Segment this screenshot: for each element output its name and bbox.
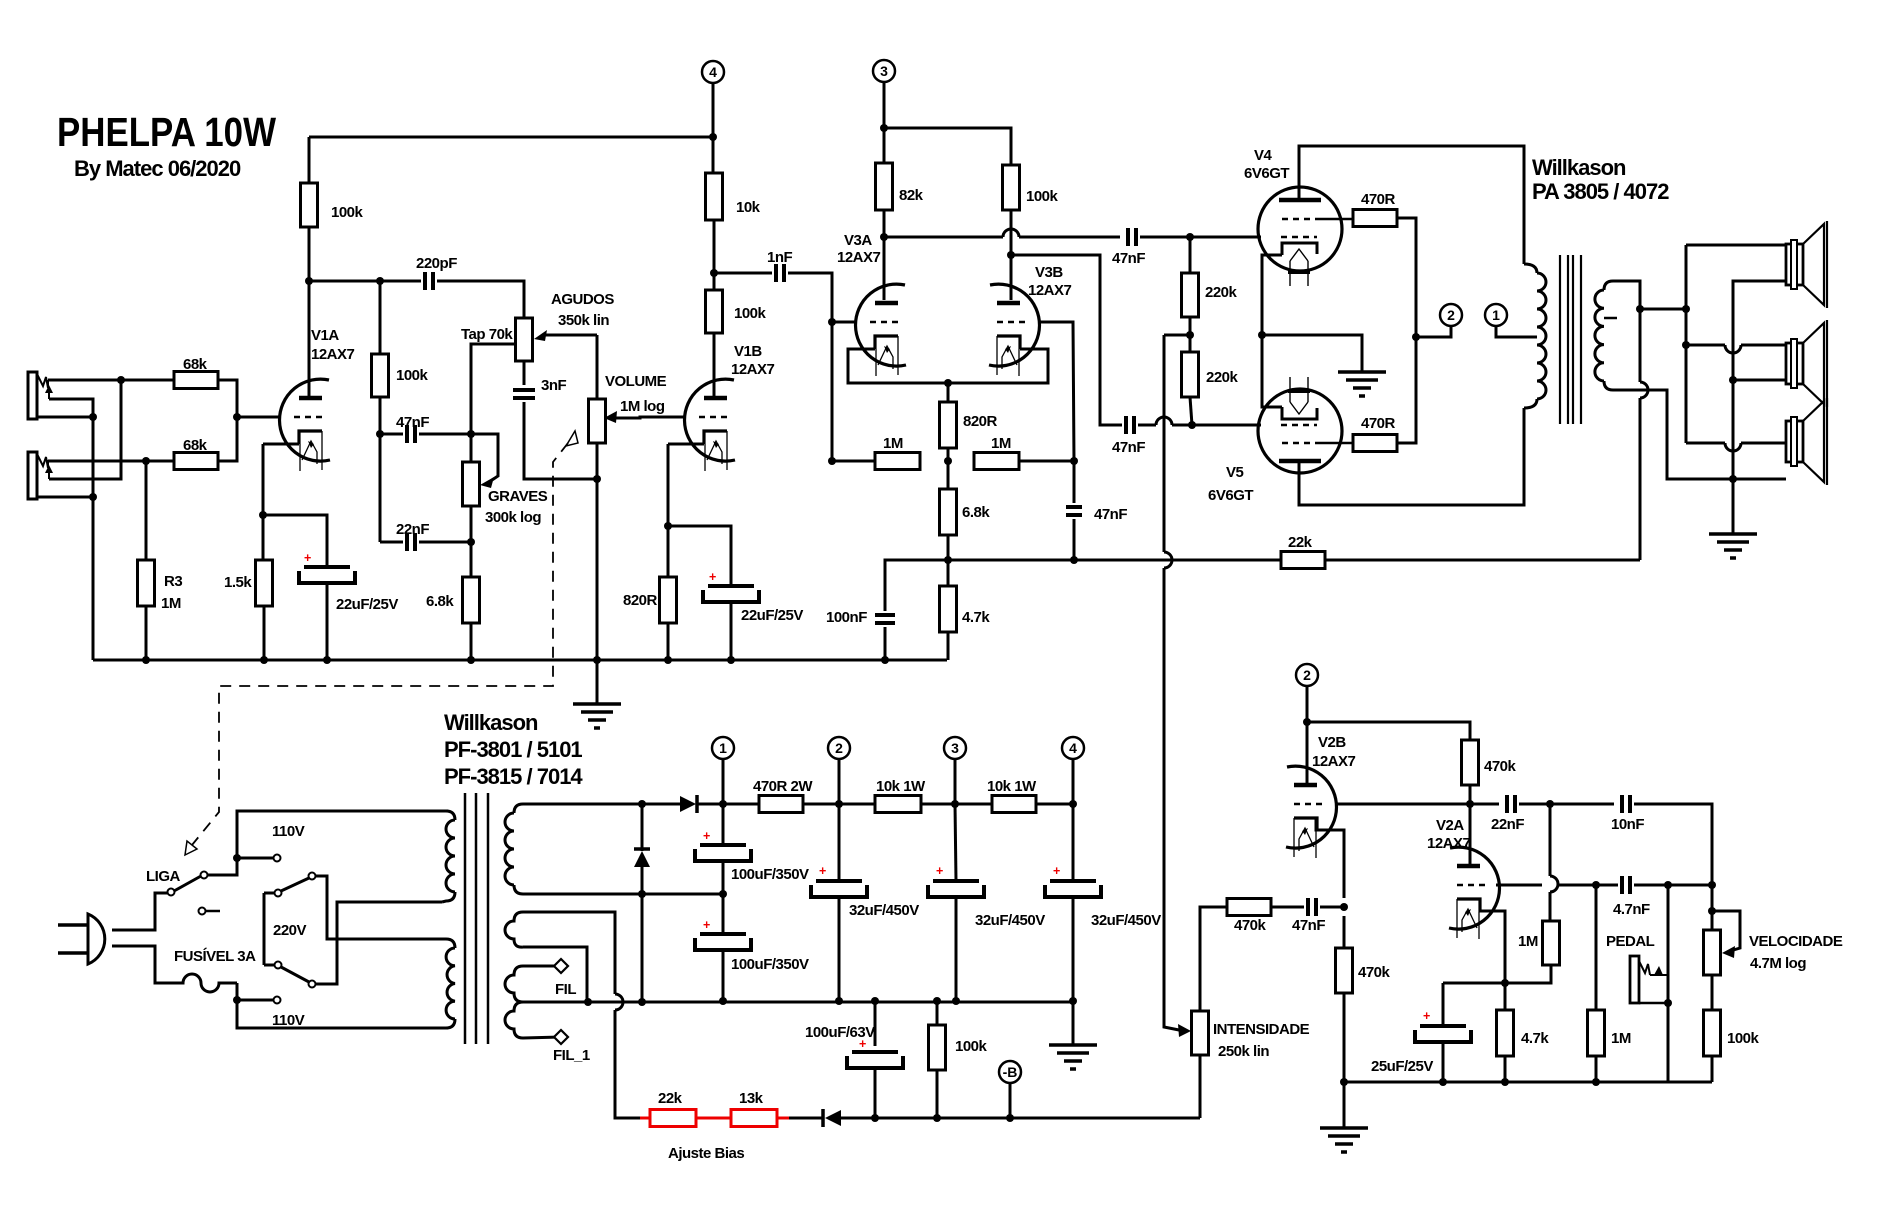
svg-text:V1A: V1A [311,327,339,344]
transformer PT primary upper jog top [446,811,455,820]
wire V2A cathode exit [1480,898,1505,1010]
node 470R column [1412,333,1420,341]
wire V2A plate stem [1469,804,1472,866]
wire hop 1M over grid at 1550,884 [1550,876,1558,892]
wire 4.7nF right [1634,884,1712,887]
wire speaker feed right [1640,308,1686,311]
node 22nF out [1546,800,1554,808]
node 22uF2 bus [727,656,735,664]
wire 32uF1 to bus [838,897,841,1001]
wire tremolo vertical lower [1164,568,1184,1031]
svg-text:12AX7: 12AX7 [1028,282,1072,299]
node velocidade loop [1708,907,1716,915]
node -B [1006,1114,1014,1122]
wire to V4 grid [1190,236,1261,239]
node 6.8k bus [467,656,475,664]
wire speaker2 bottom [1733,379,1786,382]
svg-text:INTENSIDADE: INTENSIDADE [1213,1021,1310,1038]
selector contact D [309,981,316,988]
svg-text:4.7k: 4.7k [962,609,990,626]
dashed linkage arrowhead top [566,431,578,446]
node cap2 bus [719,997,727,1005]
selector contact C [275,962,282,969]
wire 22nF to 10nF node [1519,803,1614,806]
resistor 100k bleeder [929,1025,946,1070]
contact 110V top [274,855,281,862]
resistor 100k velocidade [1704,1010,1721,1056]
wire V3B plate stem [1010,255,1013,300]
wire V1B cathode down [667,444,670,526]
wire 220k bottom lead [1190,397,1192,425]
capacitor 47nF coupling A [1112,228,1145,267]
node 100nF bus [881,656,889,664]
capacitor 3nF [513,377,567,398]
svg-text:4.7M log: 4.7M log [1750,955,1806,972]
wire t1 stem [722,759,725,804]
node R3 bus [142,656,150,664]
terminal -B [999,1061,1021,1083]
node speaker bus mid [1682,341,1690,349]
wire hop speaker2 top at 1733,345 [1725,345,1741,353]
wire 220pF node down [379,281,382,354]
wire hop speaker3 top at 1733,443 [1725,443,1741,451]
wire V3A plate stem [883,237,886,300]
svg-text:VELOCIDADE: VELOCIDADE [1749,933,1843,950]
wire velocidade stem [1711,885,1714,930]
terminal 2 V2B [1296,664,1318,686]
wire to V5 grid [1192,424,1261,427]
svg-text:10k 1W: 10k 1W [876,778,926,795]
wire NFB bus left [885,560,948,611]
node cathodes [1258,331,1266,339]
resistor 470R upper [1353,191,1397,227]
wire 100k tone to 47nF node [379,397,382,542]
capacitor 32uF/450V 2 [928,864,1045,929]
svg-text:4.7k: 4.7k [1521,1030,1549,1047]
wire 32uF3 stem [1072,804,1075,881]
wire rail3 to 82k [883,128,886,163]
terminal 2 bottom [828,737,850,759]
node tap 47nF [467,430,475,438]
wire terminal1 stem [1496,326,1537,337]
node V3A grid tap [828,318,836,326]
node V3 common cathode [944,379,952,387]
wire cathode net down [1343,916,1346,948]
wire selector B to lower winding [316,876,442,939]
wire pedal drop [1667,885,1670,1082]
node speaker bus top [1682,305,1690,313]
wire bias 22k-13k red link [696,1117,731,1120]
node HV top D1 [638,800,646,808]
resistor 68k lower [174,437,218,470]
wire bus ground stem [596,660,599,704]
wire R3 to ground bus [145,606,148,660]
transformer OT primary coil [1537,273,1546,399]
svg-text:-B: -B [1003,1064,1018,1080]
svg-text:V4: V4 [1254,147,1273,164]
capacitor 1nF [767,249,793,282]
svg-text:AGUDOS: AGUDOS [551,291,614,308]
contact 110V bottom [274,997,281,1004]
node CT D2 [638,998,646,1006]
wire 22nF right lead [419,541,471,544]
transformer OT core [1560,255,1581,424]
node J1 tip junction [117,376,125,384]
terminal 1 bottom [712,737,734,759]
wire 68k upper to grid [218,380,281,417]
transformer PT HV coil [505,813,514,885]
potentiometer AGUDOS 350k [516,318,533,361]
svg-text:1M: 1M [883,435,903,452]
wire 47nF a to 220k node [1140,236,1190,239]
capacitor 47nF NFB [1066,506,1127,523]
input jack J2 [28,452,53,499]
wire sleeve ground drop [92,417,95,660]
wire 82k to plate node [883,210,886,237]
wire INTENSIDADE top [1200,907,1227,1011]
svg-text:6.8k: 6.8k [426,593,454,610]
resistor 10k [706,173,761,220]
wire 1M hop upper [1549,804,1552,876]
node 32uF3 bus [1069,997,1077,1005]
wire 1M right lead [1019,460,1074,463]
svg-text:1nF: 1nF [767,249,793,266]
wire cap1 mid [722,861,725,934]
wire B1 to B2 [803,803,875,806]
wire 68k lower to grid node [218,417,237,461]
node 25uF rail [1439,1078,1447,1086]
wire 110V top tap [237,857,273,860]
wire AGUDOS bottom to 3nF [523,361,526,385]
wire 22uF to bus [326,583,329,660]
wire B2 to B3 [921,803,992,806]
wire 3nF down and right [524,402,597,479]
svg-text:13k: 13k [739,1090,764,1107]
ground V2 [1320,1128,1368,1152]
wire t3 stem [954,759,957,804]
switch LIGA contact left [168,889,175,896]
fuse FUSIVEL 3A [180,974,237,992]
wire V2B grid line [1336,803,1499,806]
node V2A plate node [1466,800,1474,808]
wire 47nF right lead [419,433,471,436]
svg-text:V1B: V1B [734,343,762,360]
transformer PT HV jog top [514,804,523,813]
wire plug line lower [112,946,180,983]
svg-text:470k: 470k [1234,917,1267,934]
svg-text:1.5k: 1.5k [224,574,252,591]
resistor 100k V1A plate [301,183,364,227]
wire bias winding bottom [523,947,587,1002]
svg-text:12AX7: 12AX7 [1312,753,1356,770]
node 22uF bus [323,656,331,664]
capacitor 4.7nF [1613,876,1650,918]
svg-text:+: + [1053,864,1060,878]
svg-text:V3A: V3A [844,232,872,249]
wire 100k to bias line [936,1070,939,1118]
node V3A plate [880,233,888,241]
wire NFB bus mid [948,559,1281,562]
transformer PT bias winding [505,912,523,947]
capacitor 10nF [1611,795,1644,833]
svg-text:PF-3815 / 7014: PF-3815 / 7014 [444,764,583,789]
node velocidade net [1708,881,1716,889]
node rail terminal4 [709,133,717,141]
svg-text:2: 2 [1447,307,1455,323]
transformer OT primary jog bottom [1524,399,1537,408]
node B+ 3 [951,800,959,808]
potentiometer VOLUME 1M [589,399,606,443]
tube V1A [280,379,330,471]
selector blade upper [281,878,309,891]
svg-text:6V6GT: 6V6GT [1208,487,1253,504]
node J1 sleeve junction [89,413,97,421]
wire hop bias over CT at 615,1002 [615,994,623,1010]
svg-text:100k: 100k [1727,1030,1760,1047]
capacitor 100uF/350V lower [695,918,809,973]
resistor 1M V2A grid [1588,1010,1605,1056]
capacitor 22nF tone [396,521,429,551]
svg-text:Willkason: Willkason [444,710,538,735]
svg-text:820R: 820R [963,413,998,430]
wire hop to 47nF a [1019,236,1120,239]
resistor 22k bias [650,1110,696,1127]
node V1A plate [305,277,313,285]
svg-text:25uF/25V: 25uF/25V [1371,1058,1433,1075]
resistor 470R lower [1353,415,1397,452]
svg-text:+: + [819,864,826,878]
wire HV top [523,803,638,806]
wire V2B cathode exit [1316,818,1344,898]
terminal 3 bottom [944,737,966,759]
resistor 10k 1W b [987,778,1037,813]
svg-text:12AX7: 12AX7 [837,249,881,266]
node HV bottom [638,890,646,898]
svg-text:32uF/450V: 32uF/450V [975,912,1045,929]
wire speaker bus [1685,245,1688,443]
tube V5 6V6GT [1258,335,1353,473]
resistor 820R V1B [660,577,677,623]
node 1M right [1070,457,1078,465]
node 1M left [828,457,836,465]
wire terminal3 stem [883,82,886,128]
dashed linkage line [192,443,568,845]
wire 10nF right [1634,804,1712,884]
wire V1A cathode down [262,444,265,560]
node 4.7k rail [1501,1078,1509,1086]
node volume bottom [593,475,601,483]
node speaker3 return [1729,475,1737,483]
terminal 2 output [1440,304,1462,326]
svg-text:6.8k: 6.8k [962,504,990,521]
wire 470R lower to column [1397,337,1416,443]
svg-text:R3: R3 [164,573,182,590]
node 220k mid [1186,331,1194,339]
node 47nF left [376,430,384,438]
wire 100uF63 stem [874,1001,877,1046]
node J2 sleeve junction [89,493,97,501]
resistor 100k tone [372,354,389,397]
wire terminal2 stem [1416,326,1451,337]
terminal 4 top [702,61,724,83]
node 110V top tap [233,854,241,862]
wire 820R2 to 1M node [947,448,950,489]
terminal 4 bottom [1062,737,1084,759]
contact FIL_1 [554,1030,568,1044]
wire 6.8k to NFB bus [947,535,950,560]
potentiometer VELOCIDADE 4.7M [1704,930,1721,975]
svg-text:12AX7: 12AX7 [731,361,775,378]
wire rail to 100k [308,137,311,183]
wire plate line to hop [884,236,1003,239]
svg-text:350k lin: 350k lin [558,312,609,329]
node B+ 4 [1069,800,1077,808]
node 820R bus [664,656,672,664]
wire 220k middle [1189,317,1192,352]
transformer PT primary lower jog bottom [446,1019,455,1028]
wire t4b stem [1072,759,1075,804]
wire 6.8k to bus [470,623,473,660]
svg-text:VOLUME: VOLUME [605,373,667,390]
svg-text:By Matec 06/2020: By Matec 06/2020 [74,156,241,181]
resistor 10k 1W a [875,778,926,813]
svg-text:110V: 110V [272,823,305,840]
transformer PT primary lower jog top [442,939,455,948]
svg-text:820R: 820R [623,592,658,609]
wire speaker1 top [1686,244,1786,247]
wire J2 switch to J1 tip [49,380,121,479]
capacitor 47nF tremolo [1292,898,1325,934]
wire V3A grid [832,321,857,324]
svg-text:3nF: 3nF [541,377,567,394]
resistor 6.8k V3 [940,489,957,535]
transformer PT primary upper jog bottom [442,892,455,902]
resistor 4.7k V3 [940,586,957,632]
svg-text:100uF/63V: 100uF/63V [805,1024,875,1041]
node pedal sleeve [1664,999,1672,1007]
wire 47nF trem to cathode node [1320,906,1344,909]
capacitor 32uF/450V 1 [811,864,919,919]
node B+ 2 [835,800,843,808]
svg-text:1: 1 [719,740,727,756]
transformer OT secondary centre tap stub [1604,317,1617,320]
svg-text:47nF: 47nF [1292,917,1325,934]
node V2 rail left [1340,1078,1348,1086]
arrow INTENSIDADE wiper [1178,1024,1191,1037]
wire 47nF drop [1073,461,1076,503]
wire 47nF b to grid node a [1138,424,1156,427]
wire 100k to V1B bar [713,333,716,398]
wire VOLUME wiper to V1B grid [612,417,686,418]
wire 470k to grid line [1469,785,1472,804]
wire speaker3 bottom [1733,478,1786,481]
resistor 470k V2B cathode [1336,948,1353,993]
ground speakers [1709,534,1757,558]
selector 220V left link [263,893,266,965]
transformer OT primary jog top [1524,264,1537,273]
wire LIGA to 110V column [208,811,448,875]
svg-text:+: + [936,864,943,878]
wire t2 stem [838,759,841,804]
tube V1B [685,379,735,471]
resistor 820R V3 [940,402,957,448]
svg-text:470R: 470R [1361,191,1396,208]
resistor 1M left [875,435,920,470]
wire V1B plate to 1nF [714,272,772,275]
wire tremolo vertical upper [1163,335,1166,552]
arrow VELOCIDADE wiper [1722,946,1735,958]
svg-text:100nF: 100nF [826,609,867,626]
wire plate node to 100k [713,273,716,290]
transformer PT FIL winding upper [505,966,561,1002]
node bias CT [584,998,592,1006]
svg-text:1: 1 [1492,307,1500,323]
svg-text:12AX7: 12AX7 [311,346,355,363]
wire 32uF2 stem [955,804,956,881]
svg-text:68k: 68k [183,356,208,373]
svg-text:32uF/450V: 32uF/450V [849,902,919,919]
node 32uF1 bus [835,997,843,1005]
wire 1M grid leak stem [1595,885,1598,1010]
arrow AGUDOS wiper [534,330,547,341]
wire V3B out right [1011,255,1122,425]
resistor 68k upper [174,356,218,389]
svg-text:10k 1W: 10k 1W [987,778,1037,795]
resistor 1M right [974,435,1019,470]
node speaker feed [1636,305,1644,313]
wire 100k to plate node [308,227,311,398]
wire ground bus left [93,659,947,662]
wire D3 to -B line [841,1117,1200,1120]
resistor 220k upper [1182,273,1199,317]
wire bias top [523,912,615,994]
node NFB 47nF [1070,556,1078,564]
svg-text:V2B: V2B [1318,734,1346,751]
svg-text:220V: 220V [273,922,307,939]
wire hop tremolo over NFB bus at 1164,560 [1164,552,1172,568]
capacitor 32uF/450V 3 [1045,864,1161,929]
node V1B cathode [664,522,672,530]
wire 820R to bus [667,623,670,660]
wire t2 V2B stem [1306,686,1309,722]
wire 47nF NFB to bus [1073,519,1076,560]
svg-text:47nF: 47nF [1112,439,1145,456]
resistor 470R 2W [753,778,813,813]
transformer PT FIL winding lower [505,1002,561,1038]
wire 100k stem top [936,1001,939,1025]
node V1A grid [233,413,241,421]
node 1M center [944,457,952,465]
wire secondary top out [1613,281,1640,309]
capacitor 100nF [826,609,895,626]
wire t4 to 10k [712,137,715,173]
node V1B plate [710,269,718,277]
wire GRAVES to 6.8k [470,506,473,577]
wire B+ rail top [309,136,713,139]
svg-text:Tap 70k: Tap 70k [461,326,513,343]
diode D3 left [823,1109,841,1127]
svg-text:2: 2 [1303,667,1311,683]
resistor 220k lower [1182,352,1199,397]
terminal 3 top [873,60,895,82]
svg-text:47nF: 47nF [1094,506,1127,523]
svg-text:PEDAL: PEDAL [1606,933,1655,950]
tube V2A [1449,847,1499,939]
svg-text:470k: 470k [1358,964,1391,981]
wire HV bottom [523,893,723,896]
terminal 1 output [1485,304,1507,326]
node 22nF graves [467,538,475,546]
